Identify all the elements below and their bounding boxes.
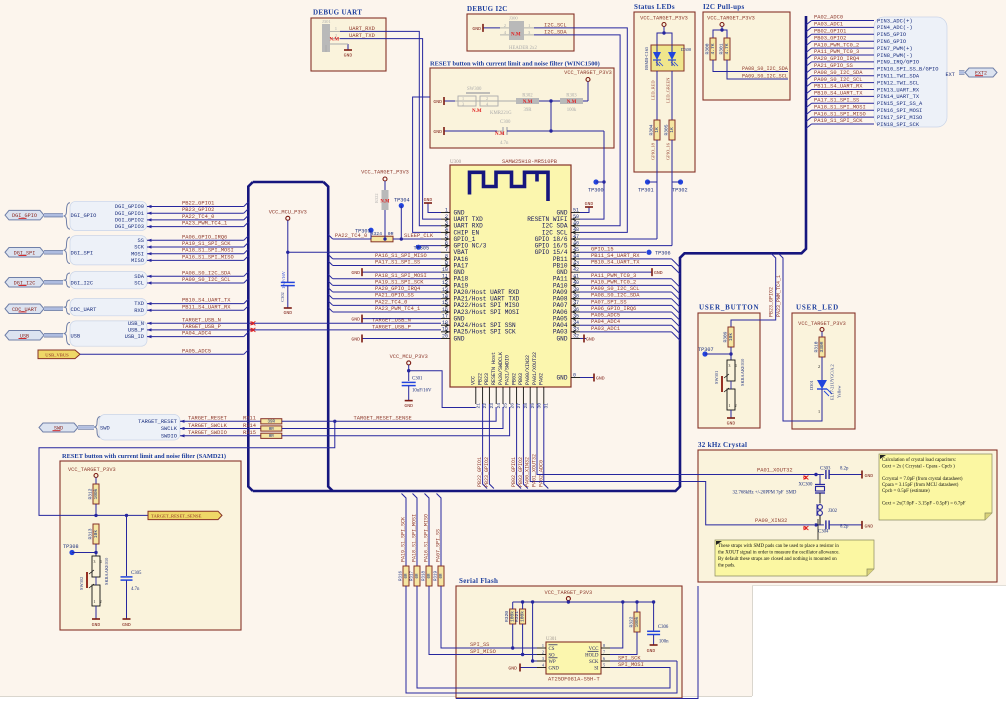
svg-text:GPIO_15: GPIO_15 bbox=[591, 246, 614, 252]
svg-text:N.M: N.M bbox=[523, 100, 533, 105]
svg-text:PA09_S0_I2C_SCL: PA09_S0_I2C_SCL bbox=[591, 286, 640, 292]
svg-text:GPIO_18: GPIO_18 bbox=[651, 142, 656, 160]
svg-text:PIN10_SPI_SS_B/GPIO: PIN10_SPI_SS_B/GPIO bbox=[877, 67, 938, 73]
svg-text:PA20_GPIO_IRQ4: PA20_GPIO_IRQ4 bbox=[814, 56, 859, 62]
svg-text:R322: R322 bbox=[629, 616, 635, 627]
svg-text:PA00_XIN32: PA00_XIN32 bbox=[755, 518, 787, 524]
svg-text:PIN6_GPIO: PIN6_GPIO bbox=[877, 39, 906, 45]
svg-text:4.7K: 4.7K bbox=[710, 43, 716, 54]
svg-text:SPI_SS: SPI_SS bbox=[470, 642, 489, 648]
svg-text:4: 4 bbox=[445, 227, 448, 233]
svg-text:BSMB-C165: BSMB-C165 bbox=[644, 46, 649, 70]
svg-text:SLEEP_CLK: SLEEP_CLK bbox=[404, 233, 434, 239]
svg-text:10: 10 bbox=[442, 267, 448, 273]
svg-text:10uF/16V: 10uF/16V bbox=[412, 389, 432, 394]
svg-text:1: 1 bbox=[445, 207, 448, 213]
svg-text:PA19_S1_SPI_SCK: PA19_S1_SPI_SCK bbox=[375, 279, 424, 285]
svg-text:R319: R319 bbox=[435, 570, 439, 581]
svg-text:SKRAAKE010: SKRAAKE010 bbox=[104, 557, 109, 585]
svg-text:USB_ID: USB_ID bbox=[125, 334, 144, 340]
svg-text:D301: D301 bbox=[809, 380, 814, 390]
svg-text:GND: GND bbox=[433, 99, 442, 105]
svg-text:PB11_S4_UART_RX: PB11_S4_UART_RX bbox=[814, 84, 863, 90]
svg-text:PA07_SPI_SS: PA07_SPI_SS bbox=[436, 529, 442, 562]
svg-text:PA08_S0_I2C_SDA: PA08_S0_I2C_SDA bbox=[182, 270, 231, 276]
svg-text:D300: D300 bbox=[681, 47, 692, 52]
svg-text:PA23_PWM_TC4_1: PA23_PWM_TC4_1 bbox=[375, 306, 420, 312]
svg-text:PIN4_ADC(-): PIN4_ADC(-) bbox=[877, 25, 913, 31]
svg-text:2: 2 bbox=[100, 600, 102, 604]
svg-text:41: 41 bbox=[573, 274, 579, 280]
svg-text:GND: GND bbox=[472, 26, 481, 32]
svg-text:PA16_S1_SPI_MISO: PA16_S1_SPI_MISO bbox=[814, 111, 866, 117]
svg-text:PB02_GPIO1: PB02_GPIO1 bbox=[511, 457, 517, 487]
svg-text:LED_GREEN: LED_GREEN bbox=[666, 77, 671, 103]
svg-text:USB: USB bbox=[71, 333, 81, 339]
svg-text:AT25DF081A-S5H-T: AT25DF081A-S5H-T bbox=[548, 677, 601, 683]
svg-text:Cext = 2x ( Ccrystal - Cpara -: Cext = 2x ( Ccrystal - Cpara - Cpcb ) bbox=[882, 464, 955, 469]
svg-text:0R: 0R bbox=[440, 573, 444, 579]
svg-text:TARGET_RESET: TARGET_RESET bbox=[188, 416, 228, 422]
svg-text:Calculation of crystal load ca: Calculation of crystal load capacitors: bbox=[882, 458, 956, 463]
svg-text:45: 45 bbox=[573, 247, 579, 253]
svg-text:PIN9_IRQ/GPIO: PIN9_IRQ/GPIO bbox=[877, 60, 919, 66]
svg-text:44: 44 bbox=[573, 254, 579, 260]
svg-text:PA19_S1_SPI_SCK: PA19_S1_SPI_SCK bbox=[814, 118, 863, 124]
svg-text:PA05_ADC5: PA05_ADC5 bbox=[591, 313, 620, 319]
svg-text:3: 3 bbox=[729, 364, 731, 368]
svg-text:PB03: PB03 bbox=[518, 373, 524, 385]
svg-text:40: 40 bbox=[573, 280, 579, 286]
svg-text:PB23_GPIO2: PB23_GPIO2 bbox=[769, 287, 775, 317]
svg-text:3: 3 bbox=[462, 102, 464, 107]
svg-text:J302: J302 bbox=[828, 509, 838, 514]
svg-text:USB_P: USB_P bbox=[128, 328, 144, 334]
svg-text:PA02: PA02 bbox=[539, 373, 545, 385]
svg-text:R322: R322 bbox=[374, 193, 379, 203]
svg-text:6: 6 bbox=[445, 240, 448, 246]
svg-text:CDC_UART: CDC_UART bbox=[71, 307, 98, 313]
svg-text:2: 2 bbox=[486, 96, 488, 101]
svg-text:PA19_S1_SPI_SCK: PA19_S1_SPI_SCK bbox=[182, 241, 231, 247]
svg-text:DGI_SPI: DGI_SPI bbox=[71, 250, 94, 256]
svg-text:PA11_PWM_TC0_3: PA11_PWM_TC0_3 bbox=[591, 273, 636, 279]
svg-text:100n: 100n bbox=[659, 640, 669, 645]
svg-text:PA00/XIN32: PA00/XIN32 bbox=[525, 355, 531, 385]
svg-text:PA11_PWM_TC0_3: PA11_PWM_TC0_3 bbox=[814, 49, 859, 55]
svg-text:GPIO_16: GPIO_16 bbox=[666, 142, 671, 160]
svg-text:VCC_TARGET_P3V3: VCC_TARGET_P3V3 bbox=[564, 70, 612, 76]
svg-text:10k: 10k bbox=[728, 333, 734, 342]
svg-text:46: 46 bbox=[573, 240, 579, 246]
svg-text:PA06_GPIO_IRQ6: PA06_GPIO_IRQ6 bbox=[182, 234, 227, 240]
svg-text:PA08_S0_I2C_SDA: PA08_S0_I2C_SDA bbox=[591, 293, 640, 299]
svg-text:I2C Pull-ups: I2C Pull-ups bbox=[703, 3, 745, 11]
svg-text:48: 48 bbox=[573, 227, 579, 233]
svg-text:R303: R303 bbox=[566, 94, 577, 99]
svg-text:C300: C300 bbox=[500, 120, 511, 125]
svg-text:10uF/16V: 10uF/16V bbox=[281, 270, 286, 289]
svg-text:VCC_TARGET_P3V3: VCC_TARGET_P3V3 bbox=[68, 467, 116, 473]
svg-text:DEBUG UART: DEBUG UART bbox=[313, 9, 362, 17]
svg-text:PA17_S1_SPI_SS: PA17_S1_SPI_SS bbox=[814, 98, 859, 104]
svg-text:MOSI: MOSI bbox=[131, 251, 144, 257]
svg-text:26: 26 bbox=[509, 403, 515, 409]
svg-text:GND: GND bbox=[549, 666, 560, 671]
svg-text:TP306: TP306 bbox=[655, 250, 671, 256]
svg-text:C303: C303 bbox=[820, 467, 831, 472]
svg-text:TXD: TXD bbox=[134, 301, 144, 307]
svg-text:0R: 0R bbox=[269, 435, 275, 439]
svg-text:PB10_S4_UART_TX: PB10_S4_UART_TX bbox=[591, 260, 640, 266]
svg-text:R302: R302 bbox=[522, 94, 533, 99]
svg-text:MISO: MISO bbox=[131, 258, 144, 264]
svg-text:39R: 39R bbox=[524, 108, 533, 113]
svg-text:PIN16_SPI_MOSI: PIN16_SPI_MOSI bbox=[877, 108, 922, 114]
svg-text:PA10_PWM_TC0_2: PA10_PWM_TC0_2 bbox=[814, 42, 859, 48]
svg-text:21: 21 bbox=[475, 403, 481, 409]
svg-text:GND: GND bbox=[508, 666, 517, 672]
svg-text:R305: R305 bbox=[664, 124, 670, 135]
svg-text:PA05_ADC5: PA05_ADC5 bbox=[182, 349, 211, 355]
svg-text:TARGET_RESET: TARGET_RESET bbox=[138, 419, 178, 425]
svg-text:C301: C301 bbox=[412, 377, 423, 382]
svg-text:17: 17 bbox=[442, 313, 448, 319]
svg-text:PA04_ADC4: PA04_ADC4 bbox=[591, 319, 620, 325]
svg-text:C304: C304 bbox=[818, 530, 829, 535]
svg-text:4.7K: 4.7K bbox=[724, 43, 730, 54]
svg-text:DEBUG I2C: DEBUG I2C bbox=[467, 5, 508, 13]
svg-text:PA23_PWM_TC4_1: PA23_PWM_TC4_1 bbox=[776, 275, 782, 317]
svg-text:XC300: XC300 bbox=[799, 483, 813, 488]
svg-text:SS: SS bbox=[138, 238, 144, 244]
svg-text:14: 14 bbox=[442, 293, 448, 299]
svg-text:TP302: TP302 bbox=[672, 188, 688, 194]
svg-text:PA22_TC4_0: PA22_TC4_0 bbox=[182, 214, 214, 220]
svg-text:10k: 10k bbox=[93, 530, 99, 539]
svg-text:TP305: TP305 bbox=[414, 245, 430, 251]
svg-text:R313: R313 bbox=[88, 528, 94, 539]
svg-text:20: 20 bbox=[442, 333, 448, 339]
svg-text:PA08_S0_I2C_SDA: PA08_S0_I2C_SDA bbox=[814, 70, 863, 76]
svg-text:8.2p: 8.2p bbox=[840, 525, 849, 530]
svg-text:2: 2 bbox=[542, 650, 544, 655]
svg-text:4: 4 bbox=[735, 364, 737, 368]
svg-text:PA17_S1_SPI_SS: PA17_S1_SPI_SS bbox=[375, 260, 420, 266]
svg-text:Yellow: Yellow bbox=[837, 385, 842, 398]
svg-text:VCC_TARGET_P3V3: VCC_TARGET_P3V3 bbox=[640, 16, 688, 22]
svg-text:PA02_ADC0: PA02_ADC0 bbox=[814, 15, 843, 21]
svg-text:PIN14_UART_TX: PIN14_UART_TX bbox=[877, 94, 920, 100]
svg-text:EL17-21UYGC/A.2: EL17-21UYGC/A.2 bbox=[830, 364, 835, 400]
svg-text:GND: GND bbox=[865, 473, 874, 479]
svg-text:PB02: PB02 bbox=[511, 373, 517, 385]
svg-text:PB03_GPIO2: PB03_GPIO2 bbox=[518, 457, 524, 487]
svg-text:R321: R321 bbox=[514, 611, 520, 622]
svg-text:TARGET_USB_P: TARGET_USB_P bbox=[182, 324, 221, 330]
svg-text:PIN12_TWI_SCL: PIN12_TWI_SCL bbox=[877, 80, 919, 86]
svg-text:GND: GND bbox=[351, 317, 360, 323]
svg-text:TARGET_RESET_SENSE: TARGET_RESET_SENSE bbox=[354, 415, 412, 421]
svg-text:0R: 0R bbox=[405, 573, 409, 579]
svg-text:VCC_TARGET_P3V3: VCC_TARGET_P3V3 bbox=[545, 590, 593, 596]
svg-text:PB23: PB23 bbox=[484, 373, 490, 385]
svg-text:PIN18_SPI_SCK: PIN18_SPI_SCK bbox=[877, 122, 920, 128]
svg-text:U300: U300 bbox=[450, 160, 462, 165]
svg-text:GND: GND bbox=[647, 648, 656, 654]
svg-text:TP304: TP304 bbox=[394, 198, 410, 204]
svg-text:7: 7 bbox=[603, 650, 605, 655]
svg-text:Status LEDs: Status LEDs bbox=[634, 3, 675, 11]
svg-text:GND: GND bbox=[557, 374, 568, 381]
svg-text:TARGET_USB_P: TARGET_USB_P bbox=[372, 324, 411, 330]
svg-text:C306: C306 bbox=[658, 625, 669, 630]
svg-text:SPI_SCK: SPI_SCK bbox=[618, 656, 641, 662]
svg-text:PA10_PWM_TC0_2: PA10_PWM_TC0_2 bbox=[591, 279, 636, 285]
svg-text:PA09_S0_I2C_SCL: PA09_S0_I2C_SCL bbox=[182, 277, 231, 283]
svg-text:PIN15_SPI_SS_A: PIN15_SPI_SS_A bbox=[877, 101, 923, 107]
svg-text:0: 0 bbox=[573, 372, 576, 378]
svg-text:2: 2 bbox=[735, 404, 737, 408]
svg-text:PB23_GPIO2: PB23_GPIO2 bbox=[182, 207, 214, 213]
svg-text:PIN13_UART_RX: PIN13_UART_RX bbox=[877, 87, 920, 93]
svg-text:HOLD: HOLD bbox=[585, 653, 599, 658]
svg-text:PB10_S4_UART_TX: PB10_S4_UART_TX bbox=[814, 91, 863, 97]
svg-text:R304: R304 bbox=[649, 124, 655, 135]
svg-text:39: 39 bbox=[573, 287, 579, 293]
svg-text:1: 1 bbox=[462, 96, 464, 101]
svg-text:PA19_S1_SPI_SCK: PA19_S1_SPI_SCK bbox=[401, 517, 407, 562]
svg-text:N.M: N.M bbox=[330, 38, 340, 43]
svg-text:Cpcb = 0.5pF (estimate): Cpcb = 0.5pF (estimate) bbox=[882, 489, 930, 494]
svg-text:12: 12 bbox=[442, 280, 448, 286]
svg-text:PIN7_PWM(+): PIN7_PWM(+) bbox=[877, 46, 913, 52]
svg-text:PA09_S0_I2C_SCL: PA09_S0_I2C_SCL bbox=[814, 77, 863, 83]
svg-text:39R: 39R bbox=[268, 421, 276, 425]
svg-text:PIN8_PWM(-): PIN8_PWM(-) bbox=[877, 53, 913, 59]
svg-text:R324 0R: R324 0R bbox=[370, 231, 393, 237]
svg-text:1: 1 bbox=[818, 409, 820, 414]
svg-text:100k: 100k bbox=[634, 616, 640, 627]
svg-text:TP308: TP308 bbox=[63, 544, 79, 550]
svg-text:N.M: N.M bbox=[495, 132, 505, 137]
svg-text:RESET button with current limi: RESET button with current limit and nois… bbox=[62, 453, 226, 460]
svg-text:RESETN Host: RESETN Host bbox=[491, 352, 497, 385]
svg-text:R316: R316 bbox=[400, 570, 404, 581]
svg-text:USER_BUTTON: USER_BUTTON bbox=[699, 304, 759, 312]
svg-text:SPI_MISO: SPI_MISO bbox=[470, 649, 496, 655]
svg-text:PIN17_SPI_MISO: PIN17_SPI_MISO bbox=[877, 115, 922, 121]
svg-text:GND: GND bbox=[454, 335, 465, 342]
svg-text:SDA: SDA bbox=[134, 274, 144, 280]
svg-text:PB02_GPIO1: PB02_GPIO1 bbox=[814, 29, 846, 35]
svg-text:DGI_GPIO3: DGI_GPIO3 bbox=[115, 224, 144, 230]
svg-text:43: 43 bbox=[573, 260, 579, 266]
svg-text:13: 13 bbox=[442, 287, 448, 293]
svg-text:PA31/SWDIO: PA31/SWDIO bbox=[505, 355, 511, 385]
svg-text:PA20_GPIO_IRQ4: PA20_GPIO_IRQ4 bbox=[375, 286, 420, 292]
svg-text:0R: 0R bbox=[428, 573, 432, 579]
svg-text:4.7n: 4.7n bbox=[500, 141, 509, 146]
svg-text:GND: GND bbox=[586, 336, 595, 342]
svg-text:PA16_S1_SPI_MISO: PA16_S1_SPI_MISO bbox=[375, 253, 427, 259]
svg-text:Serial Flash: Serial Flash bbox=[459, 577, 498, 585]
svg-text:100k: 100k bbox=[567, 108, 577, 113]
svg-text:R318: R318 bbox=[423, 570, 427, 581]
svg-text:USER_LED: USER_LED bbox=[796, 304, 839, 312]
svg-text:By default these straps are cl: By default these straps are closed and n… bbox=[718, 557, 837, 562]
svg-text:R300: R300 bbox=[705, 43, 711, 54]
svg-text:J301: J301 bbox=[322, 19, 331, 24]
svg-text:R315: R315 bbox=[243, 430, 256, 436]
svg-text:SWD: SWD bbox=[100, 426, 110, 432]
svg-text:SWDIO: SWDIO bbox=[161, 433, 177, 439]
svg-text:3: 3 bbox=[445, 221, 448, 227]
svg-text:R309: R309 bbox=[723, 331, 729, 342]
svg-text:GND: GND bbox=[433, 129, 442, 135]
svg-text:PA18_S1_SPI_MOSI: PA18_S1_SPI_MOSI bbox=[814, 104, 866, 110]
svg-text:18: 18 bbox=[442, 320, 448, 326]
svg-text:R301: R301 bbox=[719, 43, 725, 54]
svg-text:the XOUT signal in order to me: the XOUT signal in order to measure the … bbox=[718, 551, 840, 556]
svg-text:DGI_GPIO0: DGI_GPIO0 bbox=[115, 204, 144, 210]
svg-text:0R: 0R bbox=[269, 428, 275, 432]
svg-text:PA18_S1_SPI_MOSI: PA18_S1_SPI_MOSI bbox=[182, 248, 234, 254]
svg-text:N.M: N.M bbox=[472, 109, 482, 114]
svg-text:31: 31 bbox=[543, 403, 549, 409]
svg-text:GND: GND bbox=[424, 197, 433, 203]
svg-text:GND: GND bbox=[596, 376, 605, 382]
svg-text:SAMW25H18-MR510PB: SAMW25H18-MR510PB bbox=[502, 159, 558, 165]
svg-text:GND: GND bbox=[404, 403, 413, 409]
svg-text:R312: R312 bbox=[88, 488, 94, 499]
svg-text:DGI_GPIO: DGI_GPIO bbox=[71, 213, 97, 219]
svg-text:4: 4 bbox=[100, 560, 102, 564]
svg-text:42: 42 bbox=[573, 267, 579, 273]
svg-text:PA22_TC4_0: PA22_TC4_0 bbox=[375, 299, 407, 305]
svg-text:C302: C302 bbox=[280, 292, 285, 302]
svg-text:Cext = 2x(7.0pF - 3.15pF - 0.5: Cext = 2x(7.0pF - 3.15pF - 0.5pF) = 6.7p… bbox=[882, 502, 966, 507]
svg-text:PA23_PWM_TC4_1: PA23_PWM_TC4_1 bbox=[182, 221, 227, 227]
svg-text:330R: 330R bbox=[819, 341, 825, 352]
svg-text:KMR221G: KMR221G bbox=[490, 111, 512, 116]
svg-text:Cpara = 3.15pF (from MCU datas: Cpara = 3.15pF (from MCU datasheet) bbox=[882, 483, 959, 488]
svg-text:8.2p: 8.2p bbox=[840, 467, 849, 472]
svg-text:N.M: N.M bbox=[511, 33, 521, 38]
svg-text:PA04_ADC4: PA04_ADC4 bbox=[182, 331, 211, 337]
svg-text:11: 11 bbox=[442, 274, 448, 280]
svg-text:PA03_ADC1: PA03_ADC1 bbox=[814, 22, 843, 28]
svg-text:GND: GND bbox=[727, 421, 736, 427]
svg-text:37: 37 bbox=[573, 300, 579, 306]
svg-text:TARGET_SWCLK: TARGET_SWCLK bbox=[188, 423, 228, 429]
svg-text:PIN3_ADC(+): PIN3_ADC(+) bbox=[877, 18, 913, 24]
svg-text:TARGET_RESET_SENSE: TARGET_RESET_SENSE bbox=[151, 514, 202, 519]
svg-text:SKRAAKE010: SKRAAKE010 bbox=[740, 358, 745, 386]
svg-text:100k: 100k bbox=[519, 611, 525, 622]
svg-text:PA03_ADC1: PA03_ADC1 bbox=[591, 326, 620, 332]
svg-text:N.M: N.M bbox=[380, 200, 390, 205]
svg-text:PB11_S4_UART_RX: PB11_S4_UART_RX bbox=[591, 253, 640, 259]
svg-text:SCL: SCL bbox=[134, 281, 144, 287]
svg-text:35: 35 bbox=[573, 313, 579, 319]
svg-text:TP303: TP303 bbox=[355, 229, 371, 235]
svg-text:32.768kHz +/-20PPM 7pF SMD: 32.768kHz +/-20PPM 7pF SMD bbox=[733, 491, 797, 496]
svg-text:PB10_S4_UART_TX: PB10_S4_UART_TX bbox=[182, 298, 231, 304]
svg-text:CS: CS bbox=[549, 647, 555, 652]
svg-text:15: 15 bbox=[442, 300, 448, 306]
svg-text:5: 5 bbox=[603, 663, 605, 668]
svg-text:GND: GND bbox=[351, 336, 360, 342]
svg-text:USB_VBUS: USB_VBUS bbox=[45, 353, 69, 358]
svg-text:TP300: TP300 bbox=[588, 188, 604, 194]
svg-text:PA01/XOUT32: PA01/XOUT32 bbox=[532, 352, 538, 385]
svg-text:PB22_GPIO1: PB22_GPIO1 bbox=[182, 201, 214, 207]
svg-text:Ccrystal = 7.0pF (from crystal: Ccrystal = 7.0pF (from crystal datasheet… bbox=[882, 477, 963, 482]
svg-text:PA16_S1_SPI_MISO: PA16_S1_SPI_MISO bbox=[182, 254, 234, 260]
svg-text:GND: GND bbox=[654, 270, 663, 276]
svg-text:1K: 1K bbox=[654, 127, 660, 133]
svg-text:PA07_SPI_SS: PA07_SPI_SS bbox=[591, 299, 627, 305]
svg-text:USB_N: USB_N bbox=[128, 321, 144, 327]
svg-text:PA18_S1_SPI_MOSI: PA18_S1_SPI_MOSI bbox=[412, 514, 418, 562]
svg-text:SW302: SW302 bbox=[79, 577, 84, 590]
svg-text:R311: R311 bbox=[243, 416, 256, 422]
svg-text:SWCLK: SWCLK bbox=[161, 426, 178, 432]
svg-text:50: 50 bbox=[573, 214, 579, 220]
svg-text:PA00_XIN32: PA00_XIN32 bbox=[525, 457, 531, 487]
svg-text:VCC: VCC bbox=[471, 376, 477, 385]
svg-text:DGI_GPIO2: DGI_GPIO2 bbox=[115, 218, 144, 224]
svg-text:SCK: SCK bbox=[134, 245, 144, 251]
svg-text:47: 47 bbox=[573, 234, 579, 240]
svg-text:PA01_XOUT32: PA01_XOUT32 bbox=[757, 468, 793, 474]
svg-text:3: 3 bbox=[94, 560, 96, 564]
svg-text:1K: 1K bbox=[669, 127, 675, 133]
svg-text:RXD: RXD bbox=[134, 308, 144, 314]
svg-text:1: 1 bbox=[94, 600, 96, 604]
svg-text:WP: WP bbox=[549, 660, 557, 665]
svg-text:RESET button with current limi: RESET button with current limit and nois… bbox=[430, 61, 600, 68]
svg-text:R310: R310 bbox=[814, 341, 820, 352]
svg-text:PB23_GPIO2: PB23_GPIO2 bbox=[484, 457, 490, 487]
svg-text:8: 8 bbox=[445, 254, 448, 260]
svg-text:PB11_S4_UART_RX: PB11_S4_UART_RX bbox=[182, 304, 231, 310]
svg-text:GND: GND bbox=[351, 270, 360, 276]
svg-text:PA06_GPIO_IRQ6: PA06_GPIO_IRQ6 bbox=[591, 306, 636, 312]
svg-text:7: 7 bbox=[445, 247, 448, 253]
svg-text:VCC_MCU_P3V3: VCC_MCU_P3V3 bbox=[269, 210, 307, 216]
svg-text:GND: GND bbox=[557, 335, 568, 342]
svg-text:TARGET_SWDIO: TARGET_SWDIO bbox=[188, 430, 227, 436]
svg-text:J300: J300 bbox=[509, 16, 518, 21]
svg-text:U301: U301 bbox=[546, 637, 557, 642]
svg-text:R317: R317 bbox=[411, 570, 415, 581]
svg-text:These straps with SMD pads can: These straps with SMD pads can be used t… bbox=[718, 544, 839, 549]
svg-text:PB22_GPIO1: PB22_GPIO1 bbox=[477, 457, 483, 487]
svg-text:PIN5_GPIO: PIN5_GPIO bbox=[877, 32, 906, 38]
svg-text:2: 2 bbox=[445, 214, 448, 220]
svg-text:GND: GND bbox=[92, 622, 101, 628]
svg-text:9: 9 bbox=[445, 260, 448, 266]
svg-text:16: 16 bbox=[442, 307, 448, 313]
svg-text:24: 24 bbox=[496, 403, 502, 409]
svg-text:49: 49 bbox=[573, 221, 579, 227]
svg-text:DGI_GPIO1: DGI_GPIO1 bbox=[115, 211, 144, 217]
svg-text:1: 1 bbox=[542, 643, 544, 648]
svg-text:DGI_I2C: DGI_I2C bbox=[71, 280, 94, 286]
svg-text:0R: 0R bbox=[416, 573, 420, 579]
